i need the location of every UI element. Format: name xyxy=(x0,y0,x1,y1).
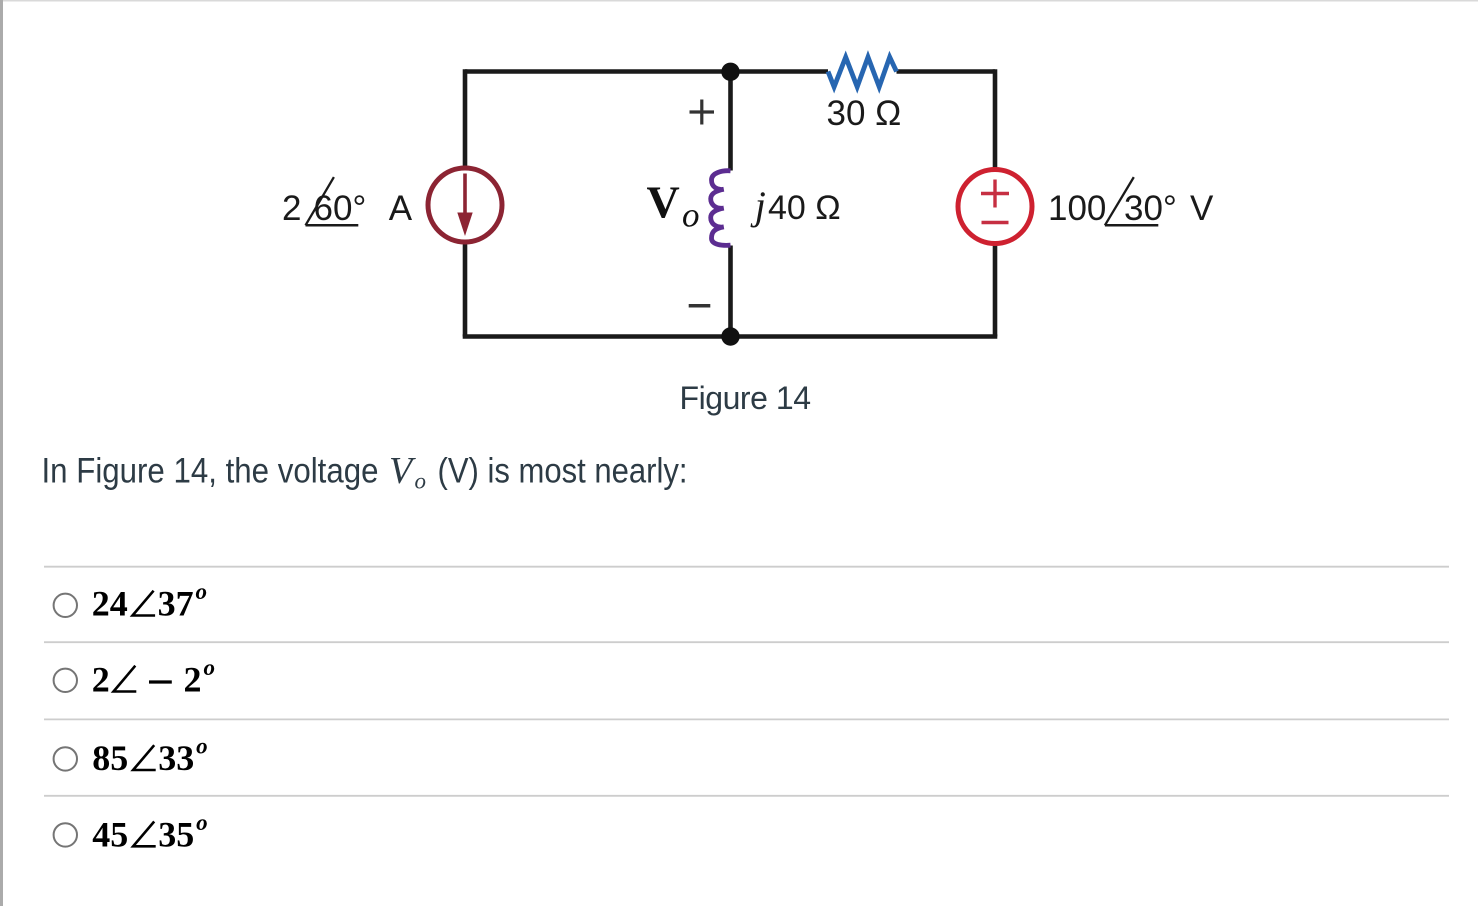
svg-text:o: o xyxy=(196,810,208,835)
svg-text:j: j xyxy=(750,183,766,228)
svg-text:85: 85 xyxy=(92,738,128,778)
option 1 math 24 angle 37 xyxy=(92,579,207,624)
svg-text:2: 2 xyxy=(282,189,301,228)
svg-text:45: 45 xyxy=(92,814,128,854)
svg-text:(V) is most nearly:: (V) is most nearly: xyxy=(438,452,688,491)
wire right upper xyxy=(993,69,998,168)
radio option 2 xyxy=(54,669,77,692)
svg-text:o: o xyxy=(196,579,208,604)
svg-text:60°: 60° xyxy=(314,189,367,228)
minus sign (Vo polarity) xyxy=(689,304,711,308)
plus sign (Vo polarity) xyxy=(690,100,715,125)
voltage source minus xyxy=(982,221,1009,224)
wire top-right segment xyxy=(897,69,996,74)
svg-text:Figure 14: Figure 14 xyxy=(680,380,812,416)
svg-text:V: V xyxy=(389,450,416,492)
svg-text:o: o xyxy=(682,196,700,235)
svg-text:40 Ω: 40 Ω xyxy=(768,189,841,227)
current source I1 circle xyxy=(428,168,502,242)
wire bottom xyxy=(463,334,998,339)
top page border xyxy=(3,0,1478,2)
svg-text:35: 35 xyxy=(158,814,194,854)
inductor j40 coil xyxy=(711,171,731,246)
svg-text:o: o xyxy=(196,734,208,759)
node bottom xyxy=(721,327,739,345)
current source arrow xyxy=(463,174,467,217)
radio option 3 xyxy=(54,747,77,770)
svg-text:o: o xyxy=(204,655,216,680)
wire middle upper xyxy=(728,72,733,171)
svg-text:o: o xyxy=(415,469,427,494)
wire left upper xyxy=(463,69,468,166)
separator line 1 xyxy=(44,566,1449,568)
svg-text:2: 2 xyxy=(184,660,202,700)
separator line 2 xyxy=(44,641,1449,643)
svg-text:33: 33 xyxy=(158,738,194,778)
option 4 math 45 angle 35 xyxy=(92,810,207,855)
resistor 30ohm zigzag xyxy=(828,57,897,87)
voltage source V1 circle xyxy=(958,170,1032,244)
svg-text:V: V xyxy=(647,177,680,228)
svg-text:37: 37 xyxy=(158,584,194,624)
wire top-left segment xyxy=(465,69,828,74)
left page border xyxy=(0,0,3,906)
option 2 math 2 angle -2 xyxy=(92,655,215,700)
svg-text:A: A xyxy=(389,189,413,228)
option 3 math 85 angle 33 xyxy=(92,734,207,779)
svg-text:30 Ω: 30 Ω xyxy=(827,94,902,133)
svg-text:100: 100 xyxy=(1048,189,1106,228)
svg-text:In Figure 14, the voltage: In Figure 14, the voltage xyxy=(42,452,379,491)
radio option 4 xyxy=(54,823,77,846)
radio option 1 xyxy=(54,594,77,617)
wire left lower xyxy=(463,244,468,337)
separator line 3 xyxy=(44,718,1449,720)
voltage source plus xyxy=(981,180,1009,208)
wire right lower xyxy=(993,245,998,337)
svg-text:2: 2 xyxy=(92,660,110,700)
node top xyxy=(721,63,739,81)
separator line 4 xyxy=(44,795,1449,797)
svg-text:V: V xyxy=(1190,189,1214,228)
svg-text:24: 24 xyxy=(92,584,128,624)
wire middle lower xyxy=(728,246,733,337)
svg-text:30°: 30° xyxy=(1124,189,1177,228)
